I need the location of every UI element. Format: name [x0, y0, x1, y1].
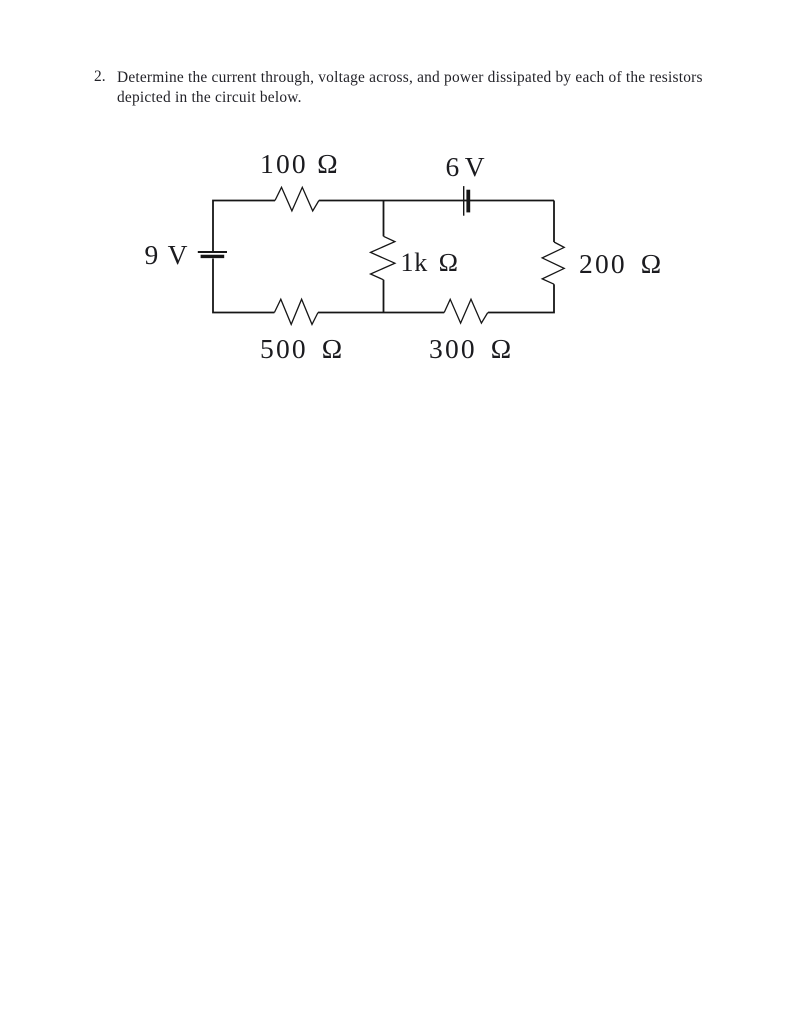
svg-text:100 Ω: 100 Ω: [260, 148, 340, 179]
svg-text:9 V: 9 V: [145, 239, 190, 270]
resistor R1 100 ohm zigzag: [275, 187, 319, 211]
svg-text:300 Ω: 300 Ω: [429, 333, 514, 364]
svg-text:1k Ω: 1k Ω: [401, 248, 460, 277]
battery V2 6V plate long: [463, 186, 465, 216]
problem number: [94, 68, 106, 86]
resistor R3 500 ohm zigzag: [274, 299, 318, 324]
battery V2 6V plate short thick: [466, 190, 470, 213]
svg-text:6 V: 6 V: [446, 151, 485, 182]
wire right-bottom segment: [488, 284, 554, 312]
resistor R4 200 ohm zigzag: [542, 242, 564, 284]
wire middle vertical bottom: [383, 280, 385, 313]
resistor R2 1k ohm zigzag: [371, 236, 395, 279]
svg-text:200 Ω: 200 Ω: [579, 248, 664, 279]
battery V1 9V plate long: [198, 251, 227, 253]
wire top-left segment: [213, 201, 275, 252]
wire top-middle segment: [319, 200, 554, 202]
wire middle vertical top: [383, 201, 385, 237]
wire bottom-middle segment: [318, 312, 444, 314]
problem statement: [117, 68, 709, 108]
wire top-right segment: [553, 201, 555, 243]
wire bottom-left segment: [213, 259, 274, 313]
svg-text:500 Ω: 500 Ω: [260, 333, 345, 364]
battery V1 9V plate short thick: [201, 255, 225, 258]
resistor R5 300 ohm zigzag: [444, 299, 488, 323]
